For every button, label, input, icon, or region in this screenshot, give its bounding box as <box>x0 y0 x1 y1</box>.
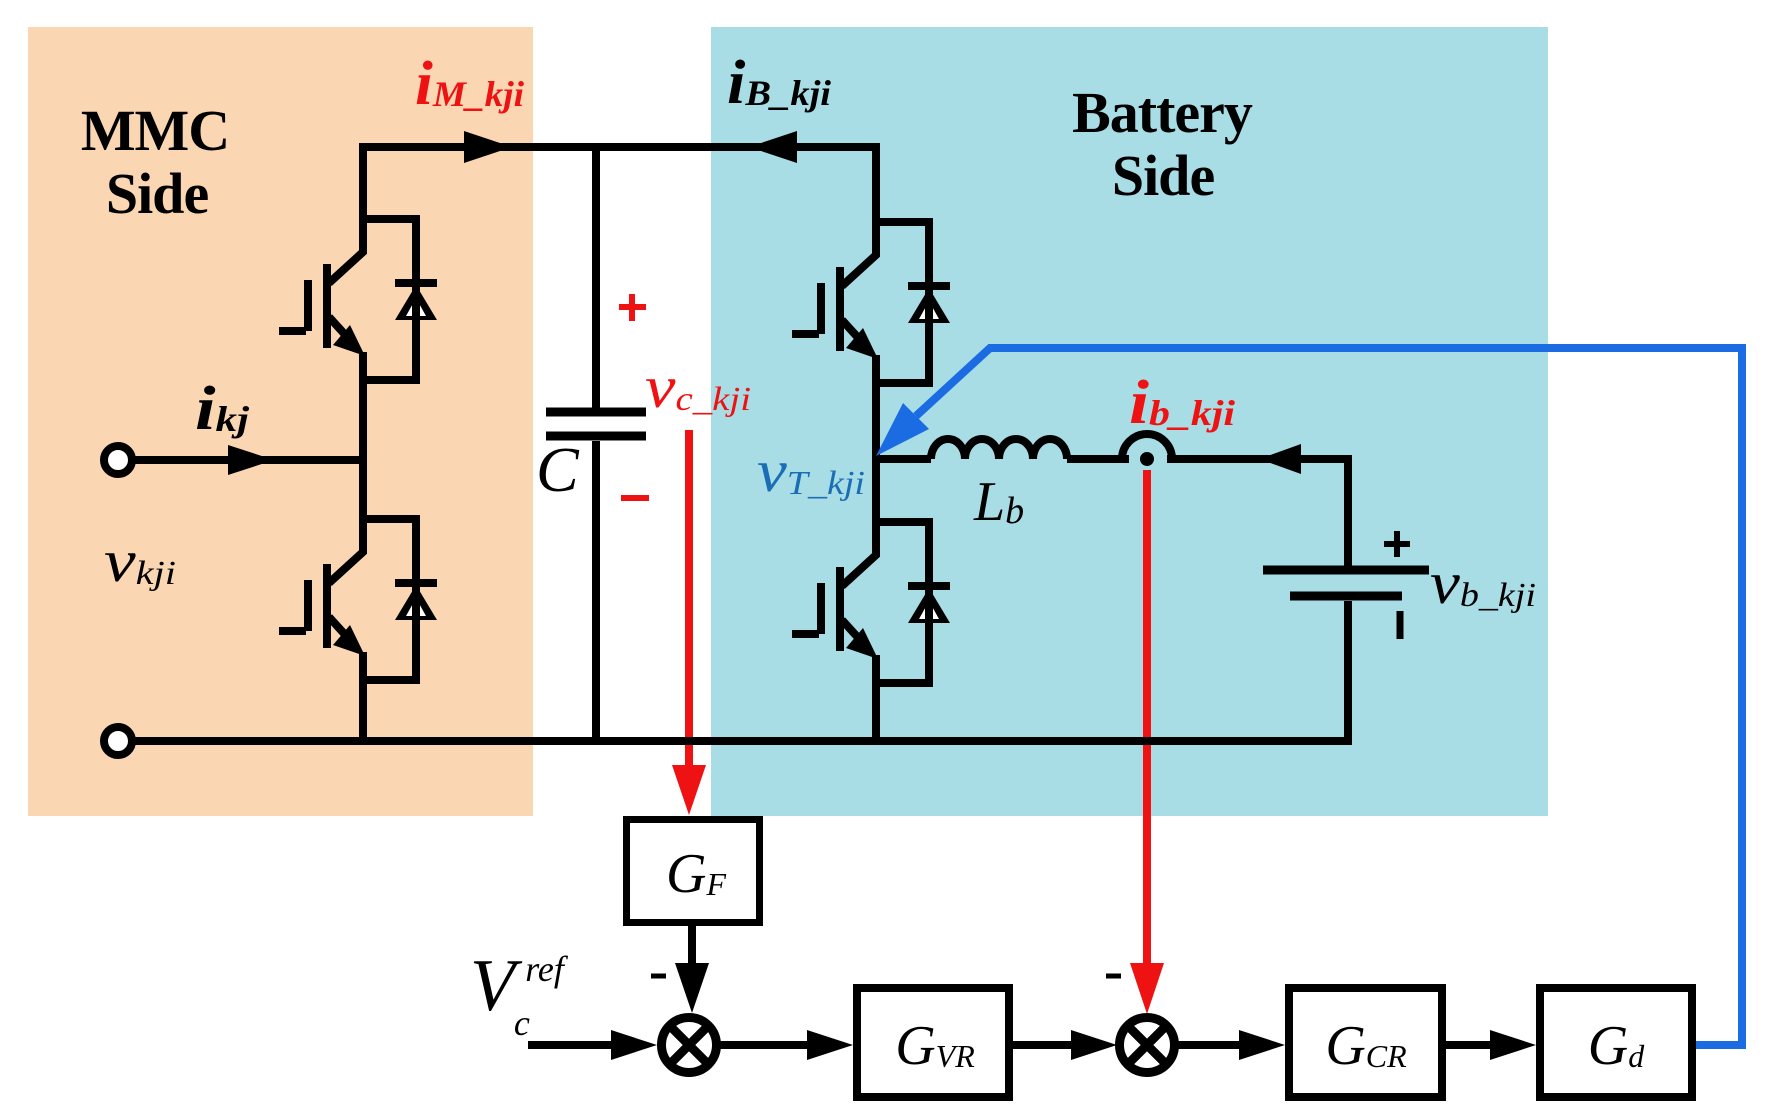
arrow: i_B_kji current direction <box>749 131 797 163</box>
label: minus (red, capacitor polarity) <box>621 495 649 501</box>
terminal: lower input node <box>104 727 132 755</box>
capacitor C (submodule capacitor) <box>546 143 646 745</box>
wire: MMC midpoint vertical <box>359 380 367 519</box>
IGBT Q2 with anti-parallel diode (MMC lower) <box>279 515 437 680</box>
label: minus at J2 <box>1106 974 1121 979</box>
IGBT Q3 with anti-parallel diode (battery upper) <box>792 218 950 383</box>
wire: bottom bus <box>132 737 1348 745</box>
current sensor bump and node dot (i_b_kji) <box>1122 434 1172 459</box>
svg-text:C: C <box>536 434 580 505</box>
arrow: battery current direction (left) <box>1259 444 1301 474</box>
MMC side region (orange background) <box>28 27 533 816</box>
wire: battery midpoint vertical <box>872 383 880 522</box>
label: minus (battery polarity) <box>1397 611 1404 639</box>
block Gd <box>1540 988 1692 1097</box>
arrow: i_M_kji current direction <box>464 131 512 163</box>
svg-text:MMC: MMC <box>81 98 229 163</box>
arrow: J2 to GCR <box>1175 1041 1243 1049</box>
wire: top DC bus <box>363 147 876 222</box>
wire: node to inductor <box>876 455 931 463</box>
IGBT Q4 with anti-parallel diode (battery lower) <box>792 518 950 683</box>
arrow: i_b_kji measurement (red, to summing junction J2) <box>1143 470 1151 965</box>
arrow: v_c_kji measurement (red, to GF) <box>685 430 693 770</box>
label: + (red, capacitor polarity) <box>619 294 646 321</box>
arrow: GVR to J2 <box>1013 1041 1078 1049</box>
arrow: blue feedback into v_T node <box>876 403 929 456</box>
arrow: J1 to GVR <box>717 1041 812 1049</box>
wire: MMC lower emitter to bottom bus <box>359 680 367 745</box>
wire: battery branch top <box>1344 455 1352 566</box>
terminal: upper input node <box>104 446 132 474</box>
svg-text:Side: Side <box>106 161 209 226</box>
wire: sensor to battery branch <box>1167 455 1348 463</box>
Battery side region (light blue background) <box>711 27 1548 816</box>
wire: battery lower emitter to bottom bus <box>872 683 880 745</box>
IGBT Q1 with anti-parallel diode (MMC upper) <box>279 215 437 380</box>
label: + (battery polarity) <box>1384 531 1410 557</box>
block GCR <box>1289 988 1442 1097</box>
svg-text:Battery: Battery <box>1072 80 1253 145</box>
inductor Lb <box>931 439 1067 459</box>
arrow: Vc ref input to J1 <box>528 1041 618 1049</box>
summing junction J2 <box>1120 1018 1175 1073</box>
block GF <box>627 820 760 923</box>
label: minus at J1 <box>651 974 666 979</box>
block GVR <box>857 988 1009 1097</box>
wire: inductor to current sensor <box>1067 455 1129 463</box>
arrow: GCR to Gd <box>1446 1041 1498 1049</box>
arrow: GF output to summing junction J1 <box>688 926 696 972</box>
battery vb_kji plates <box>1263 566 1429 575</box>
wire: Gd feedback (blue) <box>916 348 1742 1045</box>
wire: ikj input <box>132 456 363 464</box>
svg-text:Side: Side <box>1112 143 1215 208</box>
wire: battery branch bottom <box>1344 601 1352 745</box>
arrow: i_kj current direction <box>228 445 274 475</box>
svg-text:Vrefc: Vrefc <box>470 945 569 1043</box>
summing junction J1 <box>662 1018 717 1073</box>
